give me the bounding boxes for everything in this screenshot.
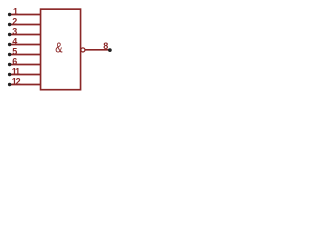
svg-text:&: & — [55, 39, 62, 56]
svg-text:5: 5 — [12, 47, 17, 57]
svg-text:1: 1 — [13, 7, 18, 17]
svg-text:8: 8 — [103, 41, 108, 51]
svg-text:12: 12 — [12, 77, 21, 87]
svg-text:6: 6 — [12, 57, 17, 67]
svg-text:4: 4 — [12, 37, 17, 47]
svg-text:2: 2 — [12, 17, 17, 27]
svg-text:3: 3 — [12, 27, 17, 37]
svg-text:11: 11 — [12, 67, 20, 77]
